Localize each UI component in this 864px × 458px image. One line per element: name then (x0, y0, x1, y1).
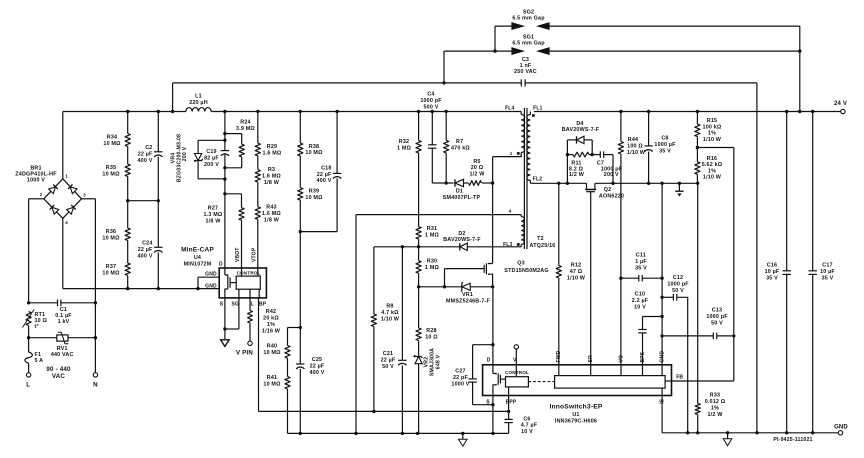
svg-text:400 V: 400 V (138, 158, 153, 164)
spark gap SG2 (495, 10, 800, 30)
svg-text:C21: C21 (383, 351, 393, 357)
svg-text:C13: C13 (712, 307, 722, 313)
wire BR1 AC right to N input (82, 199, 96, 373)
terminal V pin U1 (514, 345, 518, 377)
svg-text:10 MΩ: 10 MΩ (263, 350, 281, 356)
varistor RV1 (27, 326, 97, 358)
svg-text:U1: U1 (572, 412, 579, 418)
capacitor C27 (451, 345, 492, 405)
transformer primary winding FL4-1 (493, 105, 525, 156)
wire output GND line (662, 431, 838, 434)
capacitor C3 (173, 57, 757, 87)
svg-text:R27: R27 (208, 205, 218, 211)
svg-text:2: 2 (40, 192, 43, 197)
resistor R3 (255, 156, 281, 186)
svg-text:1/10 W: 1/10 W (381, 316, 400, 322)
svg-text:U4: U4 (194, 255, 201, 261)
resistor R37 (102, 241, 130, 289)
resistor R24 (225, 119, 256, 168)
wire U4 S and SG to return arrow (221, 298, 239, 347)
svg-text:1 nF: 1 nF (520, 63, 532, 69)
capacitor C10 (632, 291, 662, 364)
svg-text:C24: C24 (142, 241, 152, 247)
svg-text:L: L (26, 382, 30, 389)
svg-text:Q3: Q3 (517, 261, 525, 267)
svg-text:BPP: BPP (506, 400, 517, 406)
svg-text:1%: 1% (711, 406, 719, 412)
resistor R28 (416, 285, 438, 340)
terminal V PIN (236, 323, 253, 357)
svg-text:1000 pF: 1000 pF (706, 314, 728, 320)
transformer bias winding 4-FL3 (503, 209, 524, 248)
capacitor C21 (381, 247, 407, 434)
svg-text:SG: SG (232, 301, 240, 307)
svg-text:220 µH: 220 µH (189, 100, 208, 106)
svg-text:10 MΩ: 10 MΩ (102, 172, 120, 178)
svg-text:D2: D2 (458, 231, 465, 237)
capacitor C7 (592, 151, 622, 183)
wire SG2-SG1 link (493, 26, 496, 53)
svg-text:FL1: FL1 (533, 105, 542, 111)
diode D4 (562, 121, 600, 144)
wire U1 GND column (660, 183, 663, 364)
capacitor C19 (204, 149, 229, 168)
svg-text:200 V: 200 V (604, 172, 619, 178)
svg-text:C8: C8 (661, 136, 668, 142)
resistor R41 (263, 358, 290, 433)
svg-text:1 MΩ: 1 MΩ (397, 146, 412, 152)
svg-text:10 MΩ: 10 MΩ (305, 195, 323, 201)
svg-text:VAC: VAC (52, 373, 65, 380)
resistor R34 (103, 112, 130, 148)
svg-text:10 V: 10 V (634, 304, 646, 310)
capacitor C2 (138, 112, 163, 201)
wire R35-R36 mid node (126, 177, 160, 229)
svg-text:SG1: SG1 (523, 35, 534, 41)
svg-text:V PIN: V PIN (236, 350, 253, 357)
svg-text:82 µF: 82 µF (204, 156, 219, 162)
svg-text:4: 4 (65, 220, 68, 225)
svg-text:400 V: 400 V (317, 178, 332, 184)
capacitor C6 (504, 416, 537, 435)
transformer secondary winding FL1-FL2 (527, 105, 543, 183)
svg-text:C12: C12 (673, 275, 683, 281)
svg-text:t°: t° (35, 324, 39, 330)
svg-text:FB: FB (676, 375, 683, 381)
svg-text:1 kV: 1 kV (58, 319, 70, 325)
svg-text:648 V: 648 V (436, 354, 442, 369)
svg-text:1000 V: 1000 V (27, 178, 45, 184)
svg-text:MinE-CAP: MinE-CAP (181, 247, 214, 254)
wire SG right vertical to 24V bus (798, 26, 801, 113)
wire R16 bottom to R33 (697, 183, 699, 403)
wire BR1 - output to B- rail (63, 218, 219, 290)
wire BP-BPP line1 (372, 410, 510, 413)
svg-text:0.012 Ω: 0.012 Ω (705, 399, 726, 405)
svg-text:1/10 W: 1/10 W (703, 137, 722, 143)
svg-text:VBOT: VBOT (235, 247, 241, 262)
svg-text:R40: R40 (267, 344, 277, 350)
svg-text:470 kΩ: 470 kΩ (451, 146, 470, 152)
wire U4 GND stubs (198, 277, 219, 288)
svg-text:10 V: 10 V (521, 429, 533, 435)
svg-text:1.3 MΩ: 1.3 MΩ (204, 212, 223, 218)
svg-text:C11: C11 (636, 252, 646, 258)
primary return arrow symbol (459, 433, 468, 446)
terminal L (26, 373, 31, 389)
svg-text:1/10 W: 1/10 W (703, 175, 722, 181)
svg-text:47 Ω: 47 Ω (570, 269, 583, 275)
svg-text:BP: BP (259, 301, 267, 307)
resistor R39 (298, 156, 323, 232)
svg-text:ATQ25/16: ATQ25/16 (530, 243, 556, 249)
svg-text:1.6 MΩ: 1.6 MΩ (262, 174, 281, 180)
wire U1 S pin to return (491, 396, 494, 434)
resistor R36 (102, 228, 130, 242)
svg-text:1%: 1% (267, 322, 275, 328)
svg-text:10 µF: 10 µF (820, 269, 835, 275)
resistor R31 (416, 226, 440, 247)
resistor R43 (255, 182, 281, 268)
svg-text:6.5 mm Gap: 6.5 mm Gap (512, 41, 545, 47)
svg-text:R38: R38 (309, 144, 319, 150)
resistor R7 (444, 112, 471, 184)
svg-text:100 Ω: 100 Ω (627, 143, 643, 149)
svg-text:1: 1 (510, 151, 513, 156)
svg-text:STD15N50M2AG: STD15N50M2AG (504, 268, 548, 274)
wire U4 BP to line1 (259, 298, 374, 412)
capacitor C25 (296, 357, 325, 435)
svg-text:20 Ω: 20 Ω (471, 165, 484, 171)
wire R44 to VO pin (619, 154, 622, 365)
svg-text:N: N (93, 382, 98, 389)
svg-text:RV1: RV1 (57, 346, 68, 352)
svg-text:1 µF: 1 µF (635, 259, 647, 265)
svg-text:C6: C6 (523, 416, 530, 422)
svg-text:GND: GND (205, 283, 217, 289)
wire snubber line (432, 181, 494, 184)
svg-text:1/10 W: 1/10 W (567, 275, 586, 281)
svg-text:50 V: 50 V (711, 320, 723, 326)
svg-text:INN3679C-H606: INN3679C-H606 (555, 419, 597, 425)
wire secondary RTN rail (530, 182, 699, 185)
svg-text:C3: C3 (522, 57, 529, 63)
svg-text:1000 V: 1000 V (451, 381, 469, 387)
wire SG1 to C3 line (442, 51, 445, 85)
resistor R16 (695, 148, 723, 184)
svg-text:C18: C18 (321, 166, 331, 172)
svg-text:R33: R33 (710, 393, 720, 399)
resistor R15 (695, 112, 722, 150)
capacitor C4 (420, 92, 442, 183)
svg-text:24 V: 24 V (834, 101, 847, 107)
IC U1 InnoSwitch3-EP (483, 350, 684, 424)
zener VR2 (414, 341, 442, 434)
capacitor C11 (621, 252, 662, 281)
svg-text:22 µF: 22 µF (138, 152, 153, 158)
svg-text:200 V: 200 V (204, 162, 219, 168)
svg-text:4.7 µF: 4.7 µF (521, 423, 538, 429)
resistor R38 (298, 112, 323, 157)
node C19 column (223, 112, 226, 269)
wire transformer pin4 to return (356, 215, 521, 434)
resistor R40 (263, 328, 300, 359)
svg-text:R32: R32 (399, 139, 409, 145)
svg-text:MMSZ5246B-7-F: MMSZ5246B-7-F (446, 299, 491, 305)
svg-text:C2: C2 (145, 145, 152, 151)
svg-text:1/8 W: 1/8 W (264, 217, 280, 223)
svg-text:500 V: 500 V (424, 104, 439, 110)
svg-text:3: 3 (83, 193, 86, 198)
svg-text:22 pF: 22 pF (453, 375, 469, 381)
svg-text:R37: R37 (106, 264, 116, 270)
diode D2 (443, 231, 481, 251)
svg-text:1/2 W: 1/2 W (708, 412, 724, 418)
wire bias node line y247 (374, 245, 521, 248)
resistor R30 (416, 247, 440, 287)
resistor R29 (255, 112, 282, 157)
capacitor C24 (138, 201, 163, 289)
svg-text:4: 4 (509, 209, 512, 214)
svg-text:1: 1 (65, 174, 68, 179)
svg-text:CONTROL: CONTROL (237, 271, 261, 276)
resistor R32 (397, 112, 421, 227)
svg-text:R30: R30 (427, 259, 437, 265)
svg-text:35 V: 35 V (766, 276, 778, 282)
wire FB net (672, 336, 734, 381)
svg-text:C10: C10 (635, 291, 645, 297)
svg-text:400 V: 400 V (310, 370, 325, 376)
svg-text:R16: R16 (707, 156, 717, 162)
capacitor C12 (662, 275, 689, 434)
svg-text:Z4DGP410L-HF: Z4DGP410L-HF (15, 171, 57, 177)
svg-text:BAV20WS-7-F: BAV20WS-7-F (443, 237, 481, 243)
svg-text:1/8 W: 1/8 W (264, 180, 280, 186)
svg-text:R3: R3 (268, 167, 275, 173)
transistor Q3 (445, 261, 549, 287)
svg-text:4.7 kΩ: 4.7 kΩ (381, 310, 399, 316)
svg-text:VR1: VR1 (462, 292, 473, 298)
svg-text:D4: D4 (576, 121, 583, 127)
svg-text:PI-9425-111021: PI-9425-111021 (773, 437, 812, 443)
svg-text:35 V: 35 V (659, 149, 671, 155)
svg-text:Q2: Q2 (604, 187, 612, 193)
svg-text:R44: R44 (628, 137, 638, 143)
transformer T2 core (524, 108, 555, 249)
svg-text:R24: R24 (240, 119, 250, 125)
resistor R11 (566, 140, 594, 183)
svg-text:50 V: 50 V (672, 288, 684, 294)
svg-text:C17: C17 (822, 263, 832, 269)
svg-text:22 µF: 22 µF (317, 172, 332, 178)
svg-text:C19: C19 (206, 149, 216, 155)
svg-text:BR1: BR1 (30, 165, 41, 171)
svg-text:S: S (220, 301, 224, 307)
ground symbol secondary RTN (675, 183, 683, 196)
bridge rectifier BR1 (15, 165, 86, 225)
svg-text:10 µF: 10 µF (765, 269, 780, 275)
svg-text:S: S (486, 400, 490, 406)
svg-text:FL4: FL4 (505, 105, 514, 111)
diode D1 (443, 179, 481, 201)
capacitor C17 (809, 112, 836, 433)
terminal GND output (834, 424, 848, 435)
svg-text:1.6 MΩ: 1.6 MΩ (262, 211, 281, 217)
svg-text:35 V: 35 V (635, 265, 647, 271)
capacitor C16 (765, 112, 791, 433)
svg-text:R43: R43 (266, 204, 276, 210)
wire U1 IS pin to output GND line (661, 396, 663, 433)
resistor R5 (469, 159, 486, 186)
wire feedback tap (697, 148, 733, 336)
svg-text:T2: T2 (537, 236, 544, 242)
capacitor C8 (644, 112, 676, 184)
thermistor RT1 (23, 310, 48, 331)
svg-text:MIN1072M: MIN1072M (184, 262, 212, 268)
svg-text:D: D (487, 358, 491, 364)
wire C3 left leg to primary bus (171, 83, 174, 113)
svg-text:R12: R12 (571, 262, 581, 268)
wire R39 column to C25 and primary return (299, 232, 302, 364)
svg-text:GND: GND (834, 424, 848, 430)
resistor R33 (695, 393, 726, 435)
svg-text:CONTROL: CONTROL (505, 370, 529, 375)
svg-text:10 MΩ: 10 MΩ (102, 236, 120, 242)
svg-text:22 µF: 22 µF (381, 358, 396, 364)
svg-text:400 V: 400 V (138, 253, 153, 259)
svg-text:D1: D1 (456, 189, 463, 195)
svg-text:R39: R39 (309, 189, 319, 195)
resistor R44 (618, 112, 646, 156)
resistor R35 (102, 147, 130, 178)
svg-text:1.6 MΩ: 1.6 MΩ (263, 150, 282, 156)
svg-text:10 Ω: 10 Ω (425, 334, 438, 340)
svg-text:R15: R15 (707, 118, 717, 124)
svg-text:440 VAC: 440 VAC (51, 352, 74, 358)
resistor R12 (556, 183, 586, 364)
svg-text:22 µF: 22 µF (310, 364, 325, 370)
wire Q3 source to U1 drain pin (491, 287, 494, 365)
svg-text:SG2: SG2 (523, 10, 534, 16)
svg-text:10 MΩ: 10 MΩ (305, 150, 323, 156)
svg-text:1/2 W: 1/2 W (569, 172, 585, 178)
svg-text:10 MΩ: 10 MΩ (263, 382, 281, 388)
wire Q3 drain node (492, 157, 494, 264)
resistor R42 (248, 298, 281, 335)
svg-text:1%: 1% (708, 131, 716, 137)
spark gap SG1 (444, 35, 800, 55)
capacitor C1 (27, 300, 97, 326)
svg-text:1000 pF: 1000 pF (420, 98, 442, 104)
svg-text:R31: R31 (427, 226, 437, 232)
svg-text:1/2 W: 1/2 W (470, 172, 486, 178)
terminal N (93, 373, 98, 389)
svg-text:R5: R5 (473, 159, 480, 165)
svg-text:D: D (219, 261, 223, 267)
svg-text:3.9 MΩ: 3.9 MΩ (236, 126, 255, 132)
svg-text:5.62 kΩ: 5.62 kΩ (702, 162, 723, 168)
svg-text:F1: F1 (35, 352, 42, 358)
svg-text:BAV20WS-7-F: BAV20WS-7-F (562, 127, 600, 133)
svg-text:250 VAC: 250 VAC (514, 69, 537, 75)
svg-text:1/10 W: 1/10 W (627, 150, 646, 156)
terminal 24V (834, 101, 847, 114)
svg-text:R29: R29 (267, 144, 277, 150)
svg-text:R41: R41 (267, 375, 277, 381)
svg-text:22 µF: 22 µF (138, 247, 153, 253)
svg-text:R28: R28 (426, 328, 436, 334)
svg-text:L1: L1 (195, 94, 202, 100)
svg-text:C16: C16 (767, 263, 777, 269)
svg-text:R35: R35 (106, 165, 116, 171)
resistor R27 (204, 194, 245, 268)
capacitor C18 (299, 112, 342, 234)
zener VR4 (171, 134, 225, 182)
svg-text:1000 µF: 1000 µF (654, 142, 676, 148)
svg-text:FL3: FL3 (503, 242, 512, 248)
svg-text:R42: R42 (266, 309, 276, 315)
svg-text:90 - 440: 90 - 440 (46, 366, 71, 373)
ground arrow on output GND line (723, 431, 732, 446)
svg-text:10 MΩ: 10 MΩ (102, 271, 120, 277)
wire primary +DC bus (63, 110, 521, 113)
svg-text:C27: C27 (455, 369, 465, 375)
svg-text:5 A: 5 A (35, 358, 44, 364)
svg-text:50 V: 50 V (382, 364, 394, 370)
svg-text:InnoSwitch3-EP: InnoSwitch3-EP (549, 403, 602, 410)
svg-text:10 MΩ: 10 MΩ (103, 141, 121, 147)
wire secondary 24V bus (534, 110, 841, 113)
svg-text:L: L (251, 301, 254, 307)
svg-text:20 kΩ: 20 kΩ (263, 316, 279, 322)
wire BR1 + output to bus (62, 112, 64, 179)
svg-text:1/8 W: 1/8 W (206, 218, 222, 224)
svg-text:2.2 µF: 2.2 µF (632, 298, 649, 304)
svg-text:R8: R8 (386, 303, 393, 309)
svg-text:100 kΩ: 100 kΩ (703, 124, 722, 130)
zener VR1 (419, 282, 495, 304)
resistor R8 (371, 247, 400, 412)
inductor L1 (186, 94, 211, 112)
label drawing number (773, 437, 812, 443)
svg-text:1 MΩ: 1 MΩ (425, 265, 440, 271)
svg-text:SM4007PL-TP: SM4007PL-TP (443, 195, 481, 201)
label input voltage (46, 366, 71, 380)
fuse F1 (25, 346, 43, 373)
svg-text:C25: C25 (312, 357, 322, 363)
svg-text:R36: R36 (106, 229, 116, 235)
svg-text:R34: R34 (107, 135, 117, 141)
svg-text:1/16 W: 1/16 W (262, 329, 281, 335)
svg-text:1 MΩ: 1 MΩ (425, 232, 440, 238)
IC U4 MinE-CAP (181, 247, 267, 308)
wire BR1 AC left to L input (29, 199, 44, 303)
svg-text:200 V: 200 V (182, 146, 188, 161)
svg-text:35 V: 35 V (822, 276, 834, 282)
svg-text:FL2: FL2 (533, 177, 542, 183)
svg-text:1000 pF: 1000 pF (667, 282, 689, 288)
wire primary return line2 (288, 432, 509, 435)
svg-text:1%: 1% (708, 168, 716, 174)
transistor Q2 sync rectifier (585, 183, 624, 364)
svg-text:6.5 mm Gap: 6.5 mm Gap (512, 16, 545, 22)
capacitor C13 (662, 307, 735, 339)
wire C3 right leg to secondary GND rail (755, 83, 758, 435)
wire U1 BPP column (508, 396, 510, 420)
svg-text:VTOP: VTOP (251, 247, 257, 262)
svg-text:C4: C4 (427, 92, 434, 98)
svg-text:R7: R7 (456, 139, 463, 145)
